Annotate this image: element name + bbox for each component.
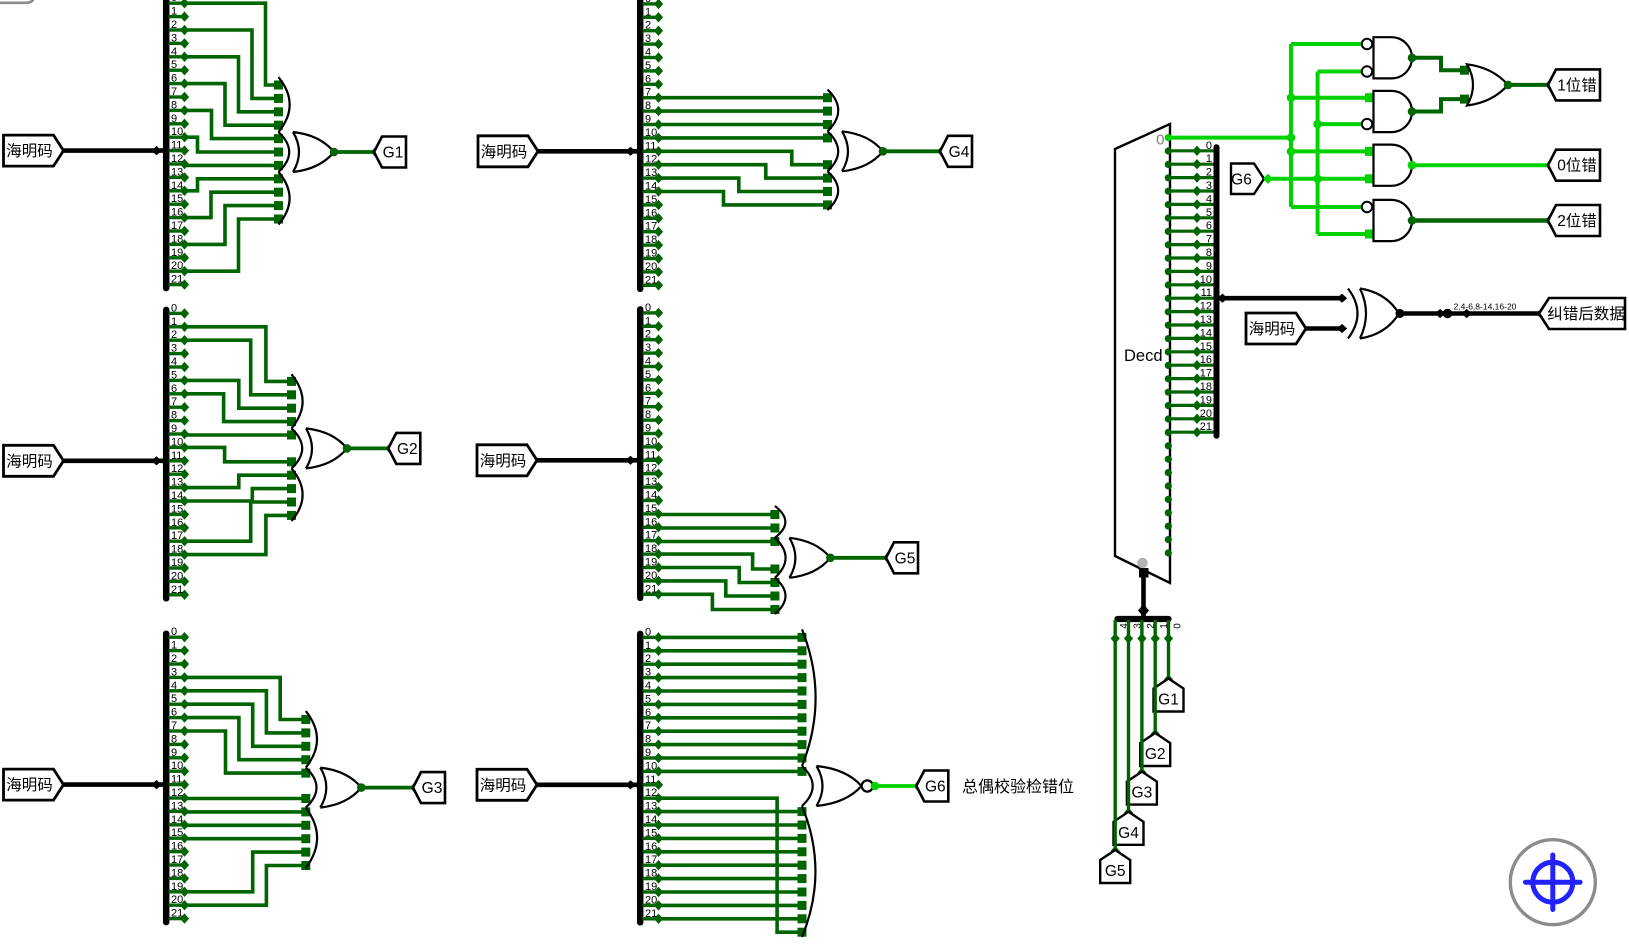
wire G1 pin6 to gate input: [185, 84, 284, 130]
splitter G3 bar: [163, 634, 170, 922]
svg-text:8: 8: [171, 410, 177, 422]
output pin 0位错: [1548, 150, 1600, 181]
svg-text:8: 8: [1206, 247, 1212, 259]
wire 海明码 trunk to splitter G2: [64, 456, 164, 465]
xor gate G4 wings: [828, 90, 839, 211]
wire G5 pin16 to gate input: [659, 524, 780, 533]
xor gate U2 output dot: [1396, 309, 1405, 318]
wire G2 pin17 to gate input: [185, 498, 297, 542]
wire track A vertical: [1289, 44, 1293, 207]
splitter G4 bar: [637, 0, 644, 288]
wire G2 pin2 to gate input: [185, 340, 297, 399]
xor gate G2 output dot: [343, 444, 352, 453]
wire G6 pin21 to gate input: [659, 914, 807, 923]
svg-text:21: 21: [171, 908, 183, 920]
wire G1 pin18 to gate input: [185, 201, 284, 244]
svg-text:20: 20: [171, 260, 183, 272]
wire G5 pin21 to gate input: [659, 594, 780, 614]
wire S8 bit3 down to G4: [1124, 639, 1133, 819]
xnor gate G6 bubble: [862, 780, 873, 791]
svg-text:8: 8: [171, 99, 177, 111]
svg-text:20: 20: [1200, 408, 1212, 420]
svg-text:海明码: 海明码: [480, 776, 527, 794]
svg-text:11: 11: [171, 450, 182, 462]
svg-text:9: 9: [645, 114, 651, 126]
wire G3 pin13 to gate input: [185, 807, 311, 816]
wire G6 pin3 to gate input: [659, 673, 807, 682]
xor gate G1 output dot: [330, 148, 339, 157]
svg-text:12: 12: [645, 787, 657, 799]
svg-text:海明码: 海明码: [481, 143, 528, 161]
output pin G4: [940, 136, 972, 167]
svg-text:19: 19: [645, 557, 657, 569]
svg-text:3: 3: [1206, 180, 1212, 192]
wire B to AND U6 bottom input: [1318, 230, 1374, 239]
wire 海明码 to XOR U2 input B: [1306, 324, 1347, 333]
svg-text:纠错后数据: 纠错后数据: [1547, 305, 1625, 323]
wire G3 pin19 to gate input: [185, 848, 311, 892]
splitter G2 fan-out stubs 0-21: [169, 308, 190, 600]
wire A to AND U4 top input: [1291, 93, 1374, 102]
svg-text:G5: G5: [895, 550, 916, 567]
input pin 海明码 (corrector): [1246, 313, 1306, 344]
wire G1 pin12 to gate input: [185, 161, 284, 170]
svg-text:0: 0: [171, 0, 177, 4]
svg-text:G4: G4: [949, 144, 970, 161]
or gate U7 output dot: [1504, 81, 1513, 90]
output pin G1: [374, 137, 406, 168]
wire G4 pin11 to gate input: [659, 151, 833, 169]
svg-text:11: 11: [645, 449, 656, 461]
wire G4 gate output to label: [883, 146, 946, 156]
gate U4 output dot: [1408, 107, 1417, 116]
svg-text:6: 6: [645, 707, 651, 719]
wire G6 pin20 to gate input: [659, 901, 807, 910]
wire S8 bit1 down to G2: [1151, 639, 1160, 740]
svg-text:20: 20: [645, 894, 657, 906]
wire G1 pin0 to gate input: [185, 3, 284, 89]
wire G4 pin10 to gate input: [659, 133, 833, 142]
wire G2 pin9 to gate input: [185, 431, 297, 440]
output pin G6: [916, 771, 948, 802]
svg-text:0: 0: [645, 626, 651, 638]
wire G1 pin10 to gate input: [185, 137, 284, 156]
wire G6 pin6 to gate input: [659, 713, 807, 722]
input pin G2 (bottom): [1140, 733, 1170, 766]
svg-text:4: 4: [171, 46, 177, 58]
svg-text:4: 4: [1206, 193, 1212, 205]
splitter S8 bit labels: [1119, 623, 1183, 629]
decoder U1 Decd body: [1115, 124, 1170, 583]
svg-text:0: 0: [1173, 623, 1184, 629]
svg-text:21: 21: [171, 274, 183, 286]
junction dots on track B: [1313, 120, 1322, 183]
xor gate G2 body: [306, 428, 347, 468]
svg-text:10: 10: [645, 436, 657, 448]
svg-text:总偶校验检错位: 总偶校验检错位: [962, 778, 1074, 796]
output pin 纠错后数据: [1539, 298, 1625, 329]
svg-text:G4: G4: [1118, 825, 1139, 842]
wire G3 pin12 to gate input: [185, 794, 311, 803]
wire G2 pin18 to gate input: [185, 511, 297, 555]
svg-text:2: 2: [171, 329, 177, 341]
svg-text:9: 9: [171, 423, 177, 435]
svg-text:12: 12: [1200, 301, 1212, 313]
svg-text:1: 1: [645, 315, 651, 327]
output pin G5: [886, 542, 918, 573]
svg-text:8: 8: [645, 734, 651, 746]
svg-text:5: 5: [171, 369, 177, 381]
svg-text:3: 3: [1133, 623, 1144, 629]
svg-text:9: 9: [171, 113, 177, 125]
wire G2 pin5 to gate input: [185, 380, 297, 412]
svg-text:16: 16: [171, 841, 183, 853]
output pin 1位错: [1548, 69, 1600, 100]
svg-text:3: 3: [171, 343, 177, 355]
svg-text:10: 10: [171, 760, 183, 772]
wire S8 bit0 down to G1: [1164, 639, 1173, 685]
wire G6 pin9 to gate input: [659, 754, 807, 763]
wire S8 bit4 down to G5: [1111, 639, 1120, 857]
svg-text:13: 13: [171, 477, 183, 489]
svg-text:14: 14: [645, 814, 657, 826]
output pin 2位错: [1548, 205, 1600, 236]
svg-text:2: 2: [645, 20, 651, 32]
wire G2 pin13 to gate input: [185, 471, 297, 488]
svg-text:10: 10: [1200, 274, 1212, 286]
gate U4 bubble: [1362, 119, 1372, 129]
svg-text:12: 12: [645, 463, 657, 475]
svg-text:7: 7: [1206, 234, 1212, 246]
splitter G5 bar: [637, 309, 644, 597]
svg-text:2: 2: [645, 653, 651, 665]
svg-text:12: 12: [645, 154, 657, 166]
splitter G3 pin labels 0-21: [171, 626, 183, 919]
svg-text:4: 4: [645, 356, 651, 368]
svg-text:海明码: 海明码: [1249, 320, 1296, 338]
svg-text:21: 21: [171, 584, 183, 596]
input pin G5 (bottom): [1100, 850, 1130, 883]
svg-text:21: 21: [645, 274, 657, 286]
xor gate U2 extra arc: [1348, 289, 1358, 339]
wire 海明码 trunk to splitter G4: [538, 147, 637, 156]
splitter G2 bar: [163, 310, 170, 598]
wire U5 to 0位错: [1412, 160, 1554, 170]
svg-text:6: 6: [645, 382, 651, 394]
svg-text:3: 3: [645, 342, 651, 354]
svg-text:2: 2: [171, 19, 177, 31]
wire G2 pin6 to gate input: [185, 394, 297, 426]
svg-text:15: 15: [171, 827, 183, 839]
svg-text:15: 15: [645, 827, 657, 839]
splitter S8 stubs down: [1111, 620, 1174, 644]
wire track B vertical: [1316, 72, 1320, 235]
wire G6 pin12 to gate input: [659, 798, 807, 937]
svg-text:18: 18: [645, 234, 657, 246]
svg-text:18: 18: [645, 543, 657, 555]
svg-text:18: 18: [1200, 381, 1212, 393]
xor gate G1 wings: [279, 77, 290, 224]
wire G1 pin14 to gate input: [185, 174, 284, 191]
svg-text:7: 7: [645, 720, 651, 732]
gate U5 body (AND): [1374, 145, 1413, 186]
svg-text:6: 6: [171, 383, 177, 395]
svg-text:20: 20: [645, 570, 657, 582]
or gate U7 body: [1467, 64, 1508, 105]
xor gate U2 wings: [0, 0, 1, 1]
wire G6 pin1 to gate input: [659, 646, 807, 655]
svg-text:20: 20: [645, 261, 657, 273]
wire G6 to AND U5 bottom input: [1263, 174, 1374, 184]
svg-text:1: 1: [1206, 153, 1212, 165]
text 总偶校验检错位: [962, 778, 1074, 796]
wire G3 pin6 to gate input: [185, 718, 311, 765]
wire G5 pin18 to gate input: [659, 554, 780, 573]
svg-text:0: 0: [171, 302, 177, 314]
svg-text:G1: G1: [383, 145, 404, 162]
svg-text:14: 14: [645, 181, 657, 193]
decoder U1 label: [1124, 347, 1163, 365]
xor gate G3 output dot: [357, 783, 366, 792]
xor gate G4 body: [842, 131, 883, 171]
svg-text:13: 13: [645, 476, 657, 488]
svg-text:15: 15: [645, 194, 657, 206]
svg-text:5: 5: [645, 60, 651, 72]
wire G5 gate output to label: [830, 553, 892, 563]
svg-text:10: 10: [645, 127, 657, 139]
wire G6 pin10 to gate input: [659, 767, 807, 776]
wire G1 pin20 to gate input: [185, 215, 284, 272]
svg-text:7: 7: [645, 87, 651, 99]
svg-text:8: 8: [645, 409, 651, 421]
svg-text:海明码: 海明码: [480, 452, 527, 470]
svg-text:4: 4: [171, 356, 177, 368]
wire G5 pin17 to gate input: [659, 537, 780, 546]
svg-text:0: 0: [1156, 132, 1164, 149]
input pin G6: [1231, 164, 1264, 195]
wire G6 pin13 to gate input: [659, 807, 807, 816]
crosshair anchor icon: [1510, 840, 1595, 925]
wire G4 pin13 to gate input: [659, 178, 833, 196]
wire G6 pin14 to gate input: [659, 821, 807, 830]
svg-text:7: 7: [645, 396, 651, 408]
xor gate G2 wings: [292, 374, 303, 521]
wire G5 pin19 to gate input: [659, 568, 780, 588]
svg-text:4: 4: [645, 680, 651, 692]
wire G6 pin7 to gate input: [659, 727, 807, 736]
splitter G3 fan-out stubs 0-21: [169, 632, 190, 924]
window chrome corner artifact: [0, 0, 35, 3]
splitter G5 fan-out stubs 0-21: [643, 308, 664, 600]
svg-text:18: 18: [171, 544, 183, 556]
svg-text:G5: G5: [1105, 863, 1126, 880]
svg-text:12: 12: [171, 463, 183, 475]
svg-text:20: 20: [171, 894, 183, 906]
svg-text:9: 9: [645, 747, 651, 759]
xor gate G5 output dot: [826, 554, 835, 563]
input pin 海明码 (G5 group): [477, 445, 537, 476]
input pin 海明码 (G2 group): [4, 445, 64, 476]
svg-text:17: 17: [645, 530, 657, 542]
svg-text:G2: G2: [397, 441, 418, 458]
svg-text:0: 0: [645, 0, 651, 5]
output pin G2: [388, 433, 420, 464]
svg-text:4: 4: [1119, 623, 1130, 629]
xor gate G1 body: [293, 132, 334, 172]
xor gate G5 body: [789, 538, 830, 578]
gate U3 output dot: [1408, 54, 1417, 63]
svg-text:17: 17: [171, 530, 183, 542]
svg-text:13: 13: [645, 801, 657, 813]
svg-text:G6: G6: [1231, 172, 1252, 189]
svg-text:19: 19: [171, 247, 183, 259]
wire G1 pin16 to gate input: [185, 188, 284, 218]
wire G6 pin18 to gate input: [659, 874, 807, 883]
svg-text:7: 7: [171, 396, 177, 408]
wire G1 pin8 to gate input: [185, 110, 284, 143]
gate U3 body (AND, inverted inputs): [1374, 37, 1413, 78]
svg-text:15: 15: [171, 503, 183, 515]
svg-text:10: 10: [171, 436, 183, 448]
svg-text:1: 1: [1159, 623, 1170, 629]
wire G3 pin14 to gate input: [185, 821, 311, 830]
svg-text:8: 8: [171, 733, 177, 745]
svg-text:2: 2: [645, 329, 651, 341]
svg-text:11: 11: [1201, 287, 1212, 299]
wire G4 pin12 to gate input: [659, 165, 833, 183]
wire G3 pin3 to gate input: [185, 677, 311, 724]
wire G3 pin15 to gate input: [185, 834, 311, 843]
junction dots on track A: [1287, 93, 1296, 155]
svg-text:G3: G3: [422, 780, 443, 797]
svg-text:2,4-6,8-14,16-20: 2,4-6,8-14,16-20: [1454, 302, 1517, 312]
splitter S7 pin labels: [1200, 140, 1212, 433]
svg-text:16: 16: [645, 841, 657, 853]
wire G6 pin16 to gate input: [659, 847, 807, 856]
svg-text:16: 16: [1200, 354, 1212, 366]
svg-text:0位错: 0位错: [1557, 157, 1597, 175]
svg-text:11: 11: [645, 140, 656, 152]
wire U6 to 2位错: [1412, 215, 1554, 225]
wire G1 pin2 to gate input: [185, 30, 284, 103]
svg-text:0: 0: [645, 302, 651, 314]
svg-text:12: 12: [171, 787, 183, 799]
svg-text:0: 0: [171, 626, 177, 638]
wire G6 pin8 to gate input: [659, 740, 807, 749]
wire decoder output0 to node A: [1168, 136, 1291, 140]
input pin 海明码 (G6 group): [477, 769, 537, 800]
wire S7 trunk to XOR U2 input A: [1217, 294, 1347, 303]
svg-text:9: 9: [1206, 260, 1212, 272]
splitter G1 bar: [163, 0, 170, 288]
xor gate G5 wings: [775, 506, 786, 614]
wire G6 pin4 to gate input: [659, 687, 807, 696]
splitter G6 bar: [637, 634, 644, 922]
wire G5 pin15 to gate input: [659, 510, 780, 519]
wire G2 pin1 to gate input: [185, 327, 297, 386]
svg-text:3: 3: [645, 33, 651, 45]
svg-text:1: 1: [171, 640, 177, 652]
splitter G6 fan-out stubs 0-21: [643, 632, 664, 924]
svg-text:17: 17: [645, 854, 657, 866]
svg-text:1: 1: [645, 640, 651, 652]
svg-text:9: 9: [171, 747, 177, 759]
svg-text:16: 16: [171, 517, 183, 529]
wire G1 pin4 to gate input: [185, 57, 284, 117]
svg-text:海明码: 海明码: [6, 452, 53, 470]
wire U7 to 1位错: [1508, 80, 1554, 90]
wire G2 pin14 to gate input: [185, 484, 297, 501]
svg-text:11: 11: [645, 774, 656, 786]
svg-text:2: 2: [171, 653, 177, 665]
splitter G4 fan-out stubs 0-21: [643, 0, 664, 290]
xnor gate G6 output dot: [871, 782, 880, 791]
svg-text:18: 18: [645, 868, 657, 880]
splitter G6 pin labels 0-21: [645, 626, 657, 919]
svg-text:G6: G6: [925, 779, 946, 796]
svg-text:11: 11: [171, 774, 182, 786]
svg-text:2位错: 2位错: [1557, 212, 1597, 230]
wire S8 bit2 down to G3: [1137, 639, 1146, 778]
wire G4 pin9 to gate input: [659, 120, 833, 129]
svg-text:14: 14: [645, 490, 657, 502]
wire 海明码 trunk to splitter G1: [64, 146, 164, 155]
wire G3 pin5 to gate input: [185, 704, 311, 751]
wire G4 pin8 to gate input: [659, 107, 833, 116]
input pin 海明码 (G3 group): [4, 769, 64, 800]
svg-text:14: 14: [171, 180, 183, 192]
wire B to NAND U3 bottom bubble: [1318, 70, 1362, 74]
wire B to AND U4 bottom bubble: [1318, 122, 1362, 126]
svg-text:13: 13: [171, 800, 183, 812]
wire U3 out to OR U7: [1412, 58, 1469, 75]
svg-text:G1: G1: [1158, 692, 1179, 709]
svg-text:海明码: 海明码: [6, 776, 53, 794]
svg-text:17: 17: [645, 221, 657, 233]
svg-text:18: 18: [171, 867, 183, 879]
svg-text:3: 3: [171, 666, 177, 678]
svg-text:8: 8: [645, 100, 651, 112]
svg-text:19: 19: [645, 881, 657, 893]
svg-text:0: 0: [1206, 140, 1212, 152]
svg-text:1: 1: [171, 6, 177, 18]
svg-text:2: 2: [1206, 167, 1212, 179]
input pin G4 (bottom): [1114, 812, 1144, 845]
svg-text:16: 16: [645, 516, 657, 528]
wire G3 gate output to label: [361, 782, 419, 792]
splitter G4 pin labels 0-21: [645, 0, 657, 286]
wire G5 pin20 to gate input: [659, 581, 780, 601]
splitter G5 pin labels 0-21: [645, 302, 657, 595]
gate U4 body (AND): [1374, 91, 1413, 132]
wire G6 pin2 to gate input: [659, 660, 807, 669]
wire U4 out to OR U7: [1412, 95, 1469, 112]
svg-text:G3: G3: [1132, 785, 1153, 802]
svg-text:4: 4: [645, 47, 651, 59]
wire G6 pin17 to gate input: [659, 861, 807, 870]
wire G3 pin20 to gate input: [185, 861, 311, 905]
wire A to NAND U3 top bubble: [1291, 42, 1362, 46]
svg-text:10: 10: [171, 126, 183, 138]
svg-text:19: 19: [1200, 394, 1212, 406]
xor gate G4 output dot: [879, 147, 888, 156]
wire 海明码 trunk to splitter G5: [537, 456, 637, 465]
wire G2 pin10 to gate input: [185, 447, 297, 466]
svg-text:3: 3: [645, 667, 651, 679]
gate U6 body (AND): [1374, 200, 1413, 241]
svg-text:18: 18: [171, 233, 183, 245]
svg-text:6: 6: [171, 707, 177, 719]
